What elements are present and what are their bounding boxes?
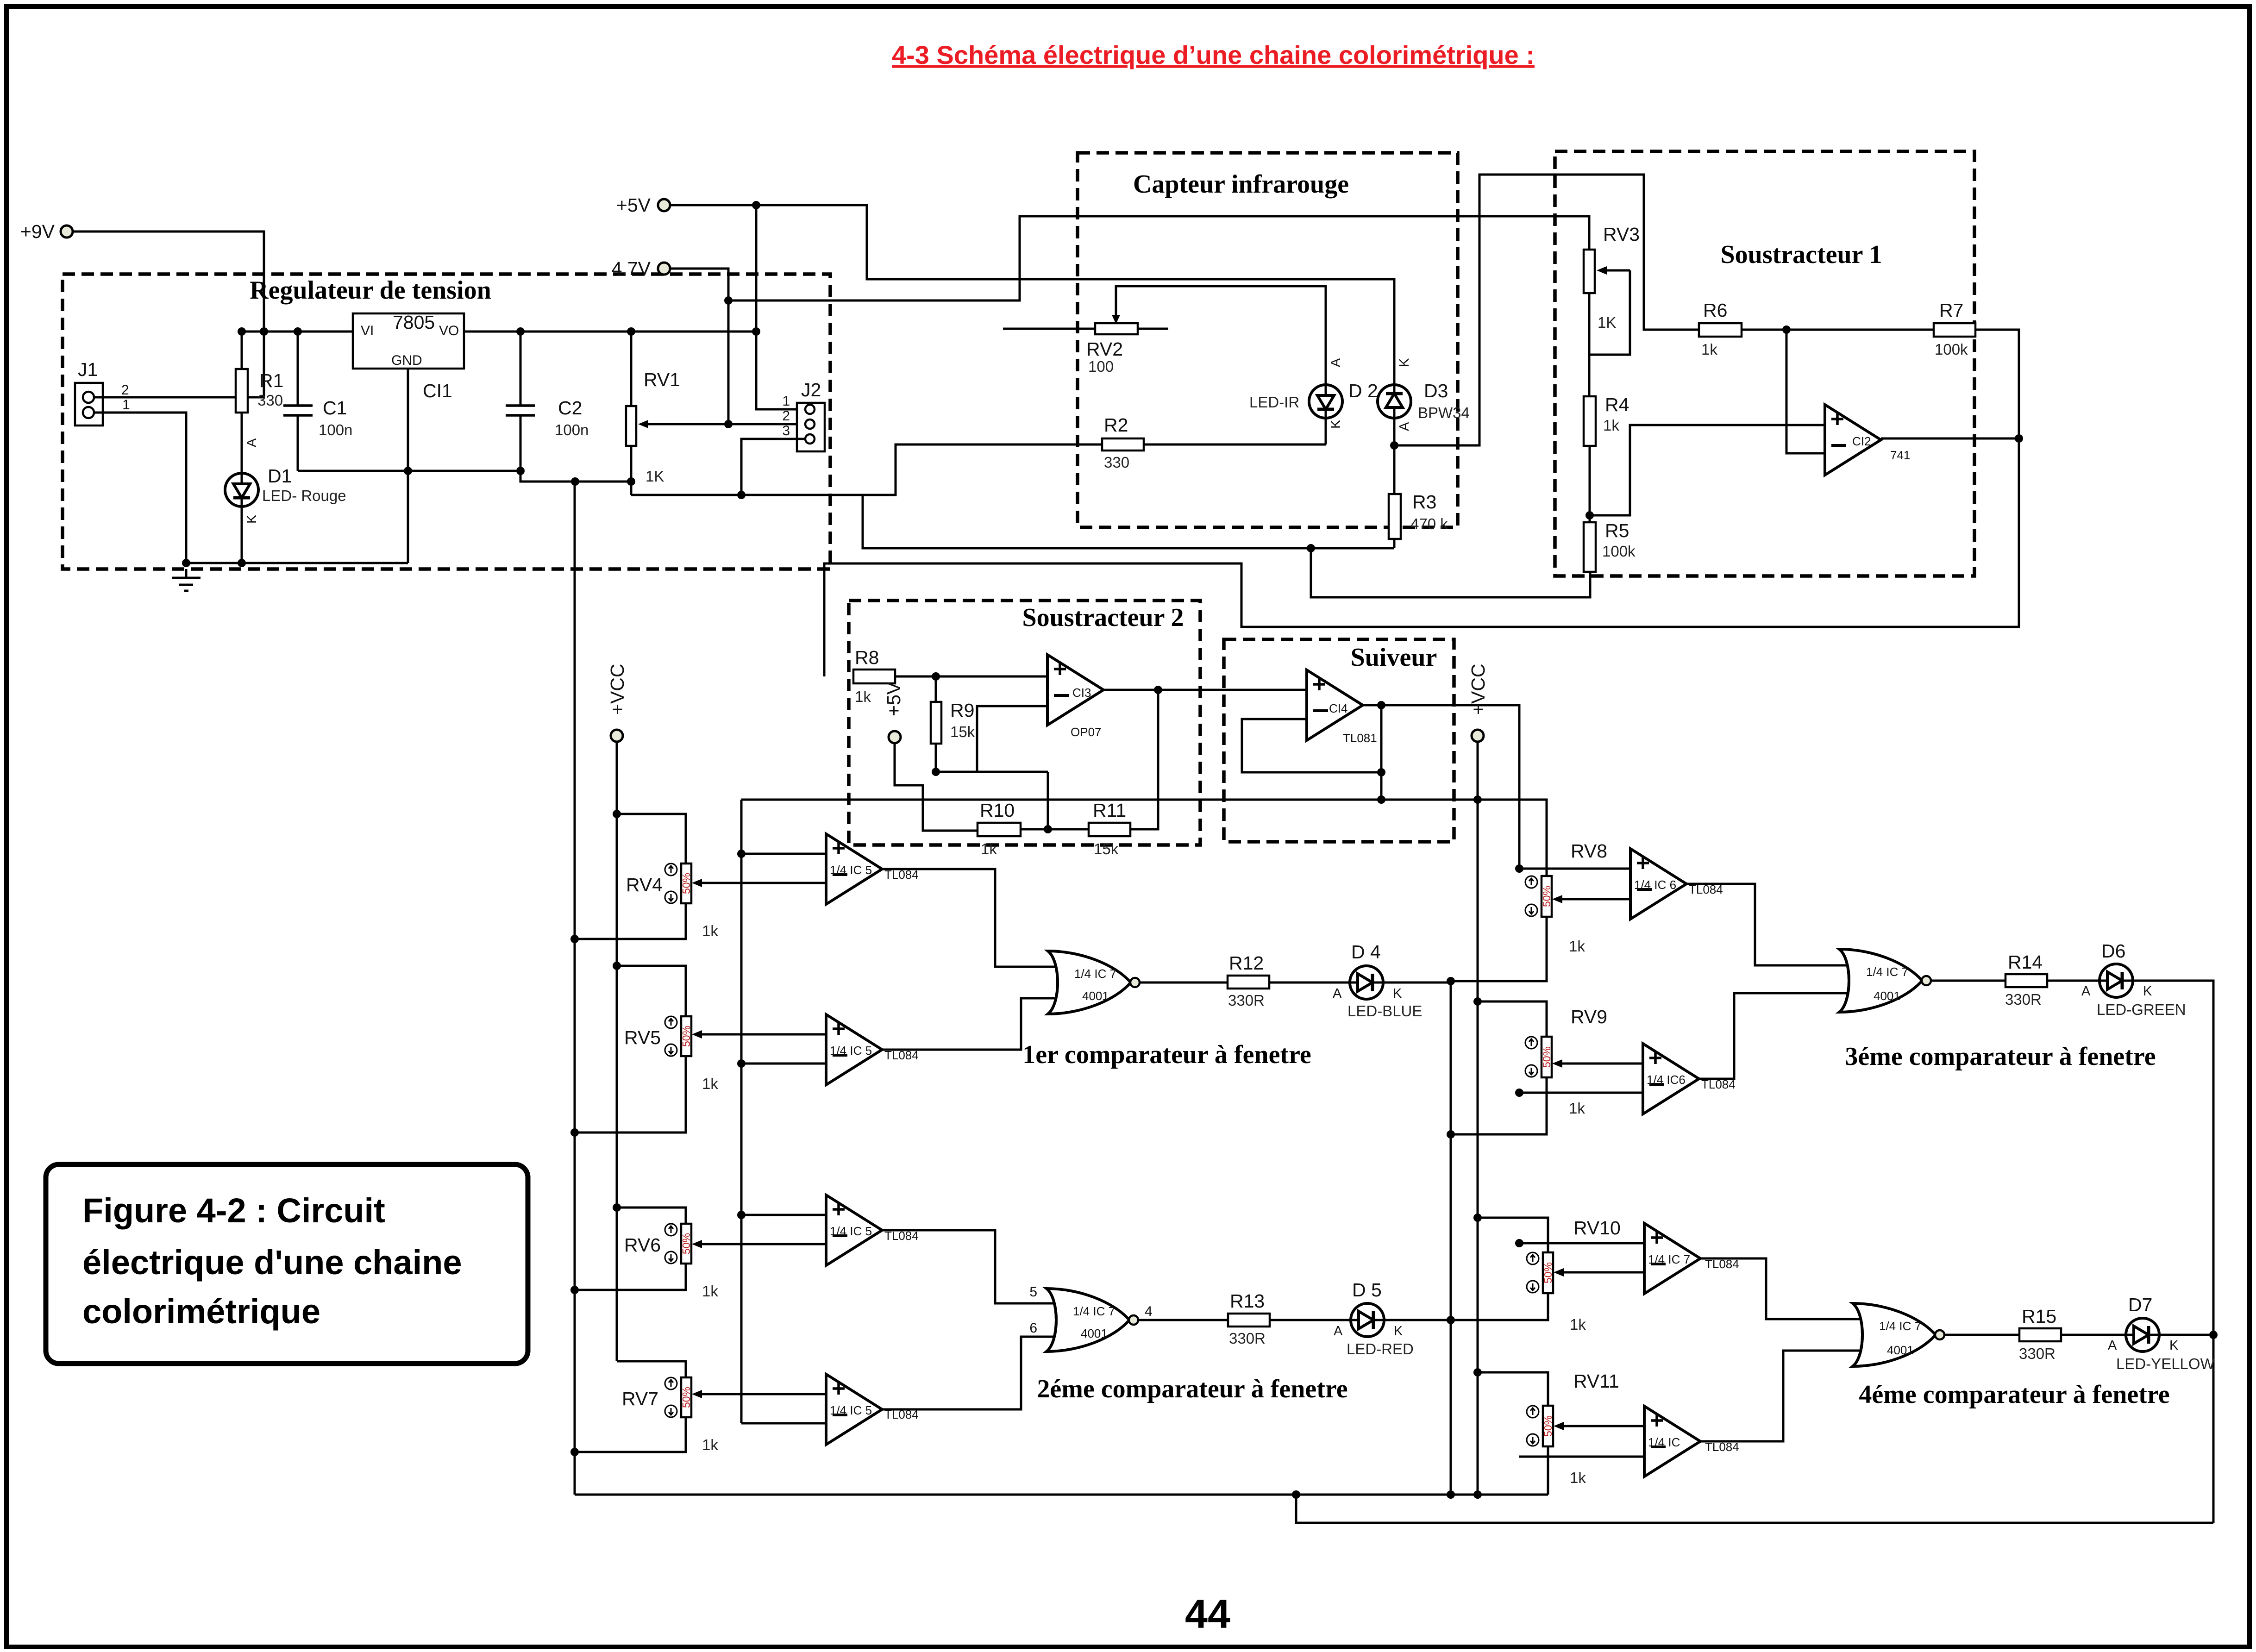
block box: Capteur infrarouge <box>1078 153 1458 527</box>
wire RV8 bottom to 0V rail <box>1451 917 1547 981</box>
diode D6 LED-GREEN <box>2099 964 2133 997</box>
svg-text:1k: 1k <box>702 1075 718 1092</box>
wire soustracteur1 output to R8 link <box>824 438 2019 676</box>
capacitor C1 <box>283 406 313 415</box>
resistor R3 <box>1389 494 1401 539</box>
wire IC5c plus from bus <box>741 1214 826 1216</box>
potentiometer RV8 <box>1542 876 1552 917</box>
wire left 0V rail <box>574 482 576 1495</box>
svg-text:1/4 IC 5: 1/4 IC 5 <box>830 863 872 877</box>
svg-text:LED-BLUE: LED-BLUE <box>1347 1002 1422 1020</box>
svg-text:LED-GREEN: LED-GREEN <box>2097 1001 2186 1018</box>
wire RV1 bottom node line <box>631 444 1102 495</box>
wire IC5c minus from RV6 wiper <box>697 1243 826 1245</box>
wire IC7d plus from RV11 wiper <box>1559 1425 1644 1427</box>
wire IC5b minus from bus <box>741 1063 826 1065</box>
wire +5V ref line <box>895 743 978 831</box>
svg-text:J1: J1 <box>78 359 98 380</box>
svg-text:1k: 1k <box>1569 1100 1585 1117</box>
svg-text:RV7: RV7 <box>622 1388 658 1409</box>
wire RV10 top from +VCC rail <box>1478 1218 1548 1252</box>
svg-text:50%: 50% <box>680 873 692 894</box>
wire R13 to D5 <box>1270 1319 1351 1321</box>
svg-text:K: K <box>1329 419 1343 429</box>
potentiometer RV3 <box>1584 250 1595 293</box>
svg-text:4001: 4001 <box>1082 989 1109 1003</box>
potentiometer RV10 <box>1543 1252 1553 1293</box>
svg-text:100: 100 <box>1088 358 1114 375</box>
block box: Regulateur de tension <box>63 274 830 569</box>
svg-text:J2: J2 <box>801 379 821 400</box>
svg-text:K: K <box>1394 1324 1403 1339</box>
terminal +5V <box>658 199 670 211</box>
wire main rail 9V/VI <box>242 331 756 333</box>
svg-text:50%: 50% <box>680 1387 692 1408</box>
svg-text:1k: 1k <box>1603 417 1619 434</box>
svg-text:50%: 50% <box>1541 886 1553 907</box>
svg-text:R13: R13 <box>1230 1290 1265 1312</box>
op-amp IC5 a <box>826 834 882 904</box>
wire RV2 wiper to D2 anode <box>1116 286 1326 384</box>
wire D7 cathode to right return <box>2159 1334 2213 1336</box>
svg-text:R2: R2 <box>1104 414 1128 436</box>
svg-text:LED-RED: LED-RED <box>1347 1340 1414 1358</box>
wire IC7c minus from RV10 wiper <box>1559 1271 1644 1274</box>
wire IC5b output to gate1 <box>881 998 1061 1050</box>
wire J1 pin2 to +9V leg <box>94 396 264 399</box>
figure caption box <box>46 1164 528 1364</box>
svg-text:R6: R6 <box>1703 300 1727 321</box>
svg-text:R3: R3 <box>1412 491 1436 513</box>
svg-text:A: A <box>1334 1324 1343 1339</box>
svg-text:330: 330 <box>1104 454 1129 471</box>
svg-text:7805: 7805 <box>393 312 435 333</box>
svg-text:K: K <box>244 514 259 524</box>
svg-text:K: K <box>2169 1338 2179 1353</box>
potentiometer RV11 <box>1543 1406 1553 1446</box>
svg-text:330R: 330R <box>1228 992 1265 1009</box>
svg-text:1/4 IC 7: 1/4 IC 7 <box>1074 967 1116 981</box>
wire 4.7V run <box>670 269 728 424</box>
svg-text:1k: 1k <box>855 688 871 705</box>
svg-text:BPW34: BPW34 <box>1418 404 1470 421</box>
wire gate4 out to R15 <box>1944 1334 2019 1336</box>
svg-text:RV4: RV4 <box>626 874 663 895</box>
resistor R4 <box>1584 396 1596 446</box>
wire R14 to D6 <box>2047 980 2099 982</box>
resistor R1 <box>236 369 248 413</box>
ground symbol <box>172 569 201 591</box>
wire IC5c output to gate2 <box>881 1230 1060 1303</box>
svg-text:1: 1 <box>782 394 790 409</box>
svg-text:RV8: RV8 <box>1571 840 1607 862</box>
svg-text:4001: 4001 <box>1874 989 1900 1003</box>
wire IC5d minus from bus end <box>741 1422 826 1425</box>
wire D4 cathode to 0V rail <box>1383 982 1451 984</box>
svg-text:RV11: RV11 <box>1573 1370 1619 1392</box>
op-amp CI3 OP07 <box>1047 655 1103 725</box>
svg-text:K: K <box>2143 984 2152 999</box>
wire IC7d output to gate4 <box>1699 1351 1866 1441</box>
terminal +VCC left <box>611 730 623 742</box>
resistor R6 <box>1699 323 1742 337</box>
nor gate 3 (4001 IC7) <box>1839 949 1931 1012</box>
svg-text:741: 741 <box>1890 448 1910 462</box>
diode D5 LED-RED <box>1351 1303 1384 1337</box>
nor gate 2 (4001 IC7) <box>1047 1289 1138 1352</box>
wire IC5b plus from RV5 wiper <box>697 1033 826 1036</box>
svg-text:Suiveur: Suiveur <box>1351 643 1437 672</box>
photodiode D3 BPW34 <box>1378 385 1411 418</box>
wire CI4 feedback loop <box>1242 705 1381 800</box>
svg-text:+5V: +5V <box>616 194 651 216</box>
wire R10-R11 node to CI3 minus <box>1021 828 1089 831</box>
svg-text:470 k: 470 k <box>1410 515 1448 532</box>
svg-text:4éme comparateur à fenetre: 4éme comparateur à fenetre <box>1859 1380 2169 1409</box>
op-amp IC5 d <box>826 1374 882 1445</box>
svg-text:R8: R8 <box>855 647 879 668</box>
wire R2 to D2 cathode <box>1144 444 1326 446</box>
svg-text:15k: 15k <box>950 723 975 740</box>
wire IC6a output to gate3 <box>1686 884 1853 965</box>
node D3 anode junction <box>1390 441 1398 450</box>
svg-text:4-3 Schéma électrique d’une ch: 4-3 Schéma électrique d’une chaine color… <box>892 40 1535 69</box>
svg-text:GND: GND <box>391 353 422 368</box>
svg-text:4.7V: 4.7V <box>612 258 651 279</box>
svg-text:1k: 1k <box>981 840 997 857</box>
svg-text:RV10: RV10 <box>1573 1217 1621 1239</box>
potentiometer RV2 <box>1095 323 1138 334</box>
svg-text:1/4 IC 7: 1/4 IC 7 <box>1866 965 1908 979</box>
resistor R7 <box>1934 323 1975 337</box>
svg-text:LED-IR: LED-IR <box>1249 394 1299 411</box>
svg-text:1er comparateur à fenetre: 1er comparateur à fenetre <box>1022 1040 1311 1069</box>
svg-text:RV3: RV3 <box>1603 224 1640 245</box>
svg-text:Soustracteur 1: Soustracteur 1 <box>1721 240 1882 269</box>
svg-text:5: 5 <box>1029 1284 1037 1300</box>
svg-text:100k: 100k <box>1602 543 1636 560</box>
svg-text:1k: 1k <box>702 922 718 939</box>
wire IC7c plus from bus <box>1519 1242 1644 1245</box>
wire RV11 top from +VCC rail <box>1478 1372 1548 1406</box>
svg-text:6: 6 <box>1029 1320 1037 1336</box>
svg-text:CI1: CI1 <box>423 380 452 401</box>
resistor R9 <box>931 702 941 744</box>
wire +VCC right rail <box>1477 742 1479 1495</box>
svg-text:50%: 50% <box>680 1233 692 1254</box>
svg-text:RV6: RV6 <box>624 1234 661 1256</box>
junction rail dots <box>260 327 268 336</box>
wire sensor 0V line <box>863 495 1394 548</box>
svg-text:R9: R9 <box>950 700 974 721</box>
op-amp IC6 b <box>1643 1044 1699 1114</box>
svg-text:Soustracteur 2: Soustracteur 2 <box>1022 603 1184 632</box>
wire IC6b plus from RV9 wiper <box>1557 1063 1643 1065</box>
svg-text:colorimétrique: colorimétrique <box>82 1292 320 1331</box>
svg-text:A: A <box>244 438 259 447</box>
wire +9V to rail <box>73 232 264 397</box>
wire CI1 GND stem <box>407 369 409 563</box>
svg-text:50%: 50% <box>1542 1262 1554 1283</box>
svg-text:330: 330 <box>257 392 283 409</box>
svg-text:A: A <box>1397 422 1412 431</box>
potentiometer RV5 <box>681 1016 691 1056</box>
potentiometer RV6 <box>681 1224 691 1264</box>
potentiometer RV4 <box>681 864 691 903</box>
svg-text:CI3: CI3 <box>1072 686 1091 700</box>
wire R6 to R7 node <box>1742 329 1934 331</box>
svg-text:R11: R11 <box>1093 800 1126 821</box>
wire IC5d plus from RV7 wiper <box>697 1393 826 1395</box>
op-amp IC7 c <box>1644 1223 1700 1294</box>
wire RV3 wiper loop <box>1590 270 1630 355</box>
op-amp IC7 d <box>1644 1406 1700 1477</box>
wire gate1 out to R12 <box>1140 982 1228 984</box>
svg-text:C1: C1 <box>323 397 347 419</box>
wire 0V LED rail right <box>1450 981 1452 1495</box>
diode D2 LED-IR <box>1309 385 1342 418</box>
wire junction to CI2 plus input <box>1590 425 1825 515</box>
svg-text:2: 2 <box>121 382 129 398</box>
svg-text:TL081: TL081 <box>1343 731 1377 745</box>
resistor R5 <box>1584 522 1596 572</box>
svg-text:100n: 100n <box>319 421 352 438</box>
svg-text:R14: R14 <box>2008 951 2043 973</box>
wire +5V leg down to rail and J2 pin1 <box>756 205 805 409</box>
svg-text:RV2: RV2 <box>1086 338 1123 360</box>
wire RV3 bottom to R4 <box>1588 293 1591 396</box>
wire sensor output to soustracteur1 <box>1394 175 1699 445</box>
wire R12 to D4 <box>1269 982 1350 984</box>
wire D6 cathode to right return <box>2133 981 2213 1523</box>
potentiometer RV1 <box>626 406 636 446</box>
wire R7 feedback <box>1975 330 2019 438</box>
wire IC7c output to gate4 <box>1699 1258 1866 1319</box>
svg-text:K: K <box>1393 986 1402 1001</box>
wire RV9 top from +VCC rail <box>1478 1001 1547 1037</box>
svg-text:1k: 1k <box>1569 938 1585 955</box>
wire IC5a output to gate1 <box>881 869 1061 967</box>
wire follower bus line <box>741 800 1547 876</box>
svg-text:+VCC: +VCC <box>1467 663 1489 715</box>
svg-text:2: 2 <box>782 408 790 424</box>
wire J1 pin1 to ground wire <box>94 413 186 563</box>
svg-text:D3: D3 <box>1424 380 1448 401</box>
connector J1 <box>75 383 103 426</box>
svg-text:CI2: CI2 <box>1852 434 1871 448</box>
svg-text:A: A <box>1333 986 1342 1001</box>
resistor R12 <box>1228 976 1269 989</box>
svg-text:R10: R10 <box>980 800 1015 821</box>
svg-text:+VCC: +VCC <box>607 663 628 715</box>
wire IC5a plus from bus <box>741 853 826 855</box>
svg-text:100n: 100n <box>555 421 589 438</box>
svg-text:électrique d'une chaine: électrique d'une chaine <box>82 1243 462 1282</box>
svg-text:330R: 330R <box>1229 1330 1266 1347</box>
wire RV11 bottom to bottom rail <box>1547 1446 1549 1495</box>
svg-text:R4: R4 <box>1605 394 1629 415</box>
svg-text:44: 44 <box>1185 1591 1230 1637</box>
wire J2 pin3 to node line <box>741 439 805 495</box>
svg-text:D1: D1 <box>268 465 292 487</box>
wire IC5a minus from RV4 wiper <box>697 882 826 884</box>
svg-text:RV1: RV1 <box>644 369 680 390</box>
resistor R15 <box>2019 1328 2061 1341</box>
wire IC6a plus from bus <box>1519 868 1630 870</box>
diode D4 LED-BLUE <box>1350 966 1383 999</box>
svg-text:CI4: CI4 <box>1329 701 1347 715</box>
connector J2 <box>797 403 825 451</box>
wire left signal bus <box>740 800 743 1423</box>
resistor R8 <box>853 670 895 683</box>
block box: Suiveur <box>1224 639 1454 842</box>
svg-text:1k: 1k <box>702 1283 718 1300</box>
svg-text:VI: VI <box>361 323 374 338</box>
wire gate2 out to R13 <box>1138 1319 1228 1321</box>
wire IC5d output to gate2 <box>881 1337 1060 1409</box>
svg-text:4001: 4001 <box>1081 1327 1108 1340</box>
svg-text:D 5: D 5 <box>1352 1279 1382 1301</box>
terminal +9V <box>61 225 73 238</box>
wire RV1 wiper from J2 pin2 <box>644 423 805 426</box>
svg-text:D 4: D 4 <box>1351 941 1381 963</box>
wire RV9 bottom to 0V rail <box>1451 1077 1547 1134</box>
svg-text:1K: 1K <box>645 468 664 485</box>
svg-text:50%: 50% <box>680 1026 692 1047</box>
svg-text:RV9: RV9 <box>1571 1006 1607 1027</box>
svg-text:1k: 1k <box>1701 341 1717 358</box>
svg-text:Regulateur de tension: Regulateur de tension <box>250 276 491 305</box>
svg-text:RV5: RV5 <box>624 1027 661 1048</box>
wire ground bottom run <box>186 562 408 564</box>
svg-text:R12: R12 <box>1229 952 1264 974</box>
svg-text:1/4 IC6: 1/4 IC6 <box>1647 1073 1686 1087</box>
wire 4.7V to RV3 feed <box>728 216 1589 300</box>
wire bottom rail B jog <box>1296 1495 2213 1523</box>
svg-text:100k: 100k <box>1935 341 1968 358</box>
svg-text:Capteur infrarouge: Capteur infrarouge <box>1133 170 1349 199</box>
terminal 4.7V <box>658 263 670 275</box>
svg-text:330R: 330R <box>2005 991 2042 1008</box>
svg-text:VO: VO <box>439 323 459 338</box>
svg-text:D6: D6 <box>2101 940 2125 962</box>
svg-text:A: A <box>2108 1338 2117 1353</box>
svg-text:4001: 4001 <box>1887 1343 1914 1357</box>
op-amp IC5 c <box>826 1195 882 1265</box>
diode D7 LED-YELLOW <box>2126 1318 2159 1352</box>
svg-text:OP07: OP07 <box>1071 725 1102 739</box>
wire gate3 out to R14 <box>1931 980 2005 982</box>
wire C2 node down to gnd rail start <box>520 471 631 495</box>
wire 0V to R5 bottom <box>1311 548 1590 597</box>
wire R4/R5 junction <box>1589 446 1591 522</box>
svg-text:D7: D7 <box>2128 1294 2152 1315</box>
svg-text:2éme comparateur à fenetre: 2éme comparateur à fenetre <box>1037 1375 1347 1403</box>
potentiometer RV7 <box>681 1377 691 1417</box>
svg-text:1: 1 <box>122 397 130 413</box>
svg-text:+9V: +9V <box>20 221 55 242</box>
svg-text:+5V: +5V <box>883 682 904 716</box>
svg-text:1K: 1K <box>1598 314 1616 331</box>
svg-text:1/4 IC 5: 1/4 IC 5 <box>830 1403 872 1417</box>
svg-text:C2: C2 <box>558 397 582 419</box>
svg-text:15k: 15k <box>1094 840 1119 857</box>
regulator CI1 7805 <box>353 313 464 369</box>
nor gate 1 (4001 IC7) <box>1048 951 1140 1014</box>
svg-text:1/4 IC 6: 1/4 IC 6 <box>1634 878 1676 892</box>
op-amp CI4 TL081 <box>1307 670 1363 740</box>
svg-text:1/4 IC 7: 1/4 IC 7 <box>1879 1319 1921 1333</box>
wire R8 to CI3 plus <box>895 676 1047 678</box>
svg-text:50%: 50% <box>1542 1415 1554 1437</box>
wire IC7d minus from bus end <box>1519 1456 1644 1458</box>
op-amp IC6 a <box>1630 849 1686 919</box>
wire R9 bottom stub <box>936 771 1048 773</box>
resistor R14 <box>2005 974 2047 987</box>
svg-text:1k: 1k <box>1570 1469 1586 1486</box>
wire CI3 output to CI4 <box>1103 689 1307 691</box>
potentiometer RV9 <box>1542 1037 1552 1077</box>
svg-text:1/4 IC 7: 1/4 IC 7 <box>1073 1304 1115 1318</box>
svg-text:3éme comparateur à fenetre: 3éme comparateur à fenetre <box>1845 1042 2156 1071</box>
op-amp IC5 b <box>826 1014 882 1085</box>
svg-text:1/4 IC 5: 1/4 IC 5 <box>830 1044 872 1058</box>
svg-text:D 2: D 2 <box>1348 380 1378 401</box>
wire +5V run to sensor <box>670 205 1394 384</box>
svg-text:K: K <box>1397 358 1412 367</box>
svg-text:50%: 50% <box>1541 1046 1553 1068</box>
svg-text:LED- Rouge: LED- Rouge <box>262 487 346 504</box>
svg-text:3: 3 <box>782 423 790 438</box>
wire +VCC left rail <box>616 742 618 1361</box>
resistor R11 <box>1089 823 1130 836</box>
terminal +VCC right <box>1472 730 1484 742</box>
wire CI4 output <box>1363 705 1519 869</box>
wire IC6b output to gate3 <box>1698 993 1853 1079</box>
svg-text:R15: R15 <box>2022 1306 2056 1327</box>
nor gate 4 (4001 IC7) <box>1853 1303 1944 1366</box>
svg-text:R5: R5 <box>1605 520 1629 541</box>
op-amp CI2 741 <box>1825 405 1881 475</box>
svg-text:R7: R7 <box>1939 300 1963 321</box>
svg-text:1/4 IC 5: 1/4 IC 5 <box>830 1224 872 1238</box>
svg-text:330R: 330R <box>2019 1345 2055 1362</box>
block box: Soustracteur 1 <box>1555 151 1974 576</box>
svg-text:1/4 IC 7: 1/4 IC 7 <box>1648 1252 1690 1266</box>
wire bottom rail A <box>575 1494 1548 1496</box>
diode D1 LED-Rouge <box>225 473 258 507</box>
wire CI2 output node <box>1881 438 2019 440</box>
resistor R10 <box>978 823 1021 836</box>
resistor R2 <box>1102 438 1144 451</box>
wire RV10 bottom to 0V rail <box>1451 1293 1548 1320</box>
terminal +5V soustracteur2 <box>889 731 901 743</box>
block box: Soustracteur 2 <box>849 601 1200 845</box>
svg-text:LED-YELLOW: LED-YELLOW <box>2116 1355 2215 1372</box>
wire gnd mid line C1-C2 <box>298 470 520 472</box>
resistor R13 <box>1228 1314 1270 1327</box>
wire D5 cathode to 0V rail <box>1384 1319 1451 1321</box>
wire node to CI2 minus input <box>1786 330 1825 453</box>
capacitor C2 <box>506 406 535 415</box>
wire R11 to output node <box>1130 690 1158 829</box>
svg-text:Figure 4-2 : Circuit: Figure 4-2 : Circuit <box>82 1191 385 1230</box>
svg-text:1k: 1k <box>1570 1316 1586 1333</box>
svg-text:A: A <box>1329 358 1343 367</box>
wire R15 to D7 <box>2061 1334 2126 1336</box>
svg-text:1/4 IC: 1/4 IC <box>1648 1435 1680 1449</box>
svg-text:A: A <box>2081 984 2091 999</box>
